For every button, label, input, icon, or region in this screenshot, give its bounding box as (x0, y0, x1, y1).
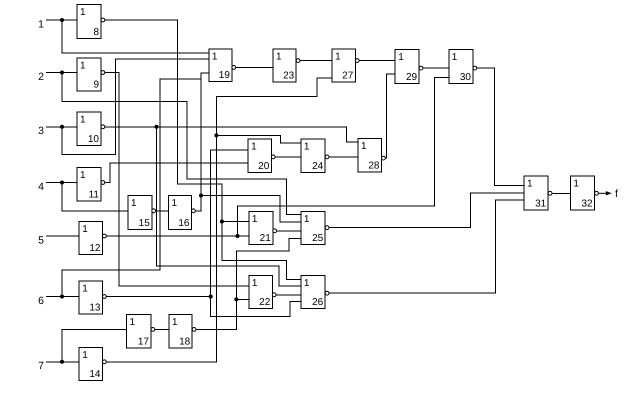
gate 26 (IEC "1" box with inverting output) (301, 275, 329, 308)
svg-text:31: 31 (535, 199, 547, 210)
gate 8 (IEC "1" box with inverting output) (77, 5, 105, 39)
gate 29 (IEC "1" box with inverting output) (395, 50, 423, 84)
wire gate 12 output to gate 21 in2 (106, 235, 249, 237)
svg-text:24: 24 (312, 161, 324, 172)
wire input 4 to gate 15 in (62, 183, 128, 211)
junction gate 12 output (236, 234, 240, 238)
svg-text:1: 1 (276, 51, 282, 62)
gate 20 (IEC "1" box with inverting output) (248, 139, 275, 173)
svg-text:29: 29 (406, 72, 418, 83)
gate 28 (IEC "1" box with inverting output) (358, 139, 385, 173)
input 6 label and lead (38, 295, 79, 307)
svg-text:1: 1 (172, 198, 178, 209)
wire branch gate 16 to gate 25 in2 (201, 196, 301, 223)
wire gate 10 output to gate 28 in1 (105, 127, 358, 142)
gate 18 (IEC "1" box with inverting output) (169, 314, 196, 347)
wire gate 11 output to gate 20 in2 (105, 163, 248, 183)
svg-text:11: 11 (89, 189, 100, 200)
wire gate 21 output to gate 25 in3 (277, 230, 301, 232)
svg-text:23: 23 (283, 71, 295, 82)
svg-text:1: 1 (80, 61, 86, 72)
junction input 1 (60, 18, 64, 22)
junction gate 16 output (199, 194, 203, 198)
svg-text:25: 25 (312, 233, 324, 244)
svg-text:1: 1 (252, 278, 258, 289)
svg-text:1: 1 (251, 141, 257, 152)
wire gate 17 output to gate 18 (155, 328, 169, 330)
svg-text:26: 26 (312, 297, 324, 308)
gate 12 (IEC "1" box with inverting output) (79, 221, 106, 254)
svg-text:1: 1 (252, 214, 258, 225)
svg-text:1: 1 (131, 198, 137, 209)
svg-text:20: 20 (258, 161, 270, 172)
svg-text:14: 14 (89, 369, 101, 380)
svg-text:1: 1 (38, 18, 44, 30)
gate 32 (IEC "1" box with inverting output) (570, 176, 598, 210)
svg-text:12: 12 (89, 243, 101, 254)
junction gate 10 output (155, 125, 159, 129)
input 7 label and lead (38, 360, 79, 372)
svg-text:5: 5 (38, 234, 44, 246)
svg-text:3: 3 (38, 125, 44, 137)
wire gate 8 output to gates 21/26 (101, 20, 301, 279)
svg-text:1: 1 (80, 115, 86, 126)
wire input 2 to gate 25 in1 (62, 73, 301, 215)
wire branch gate 10 to gate 26 in2 (157, 127, 301, 286)
wire gate 25 output to gate 31 in2 (329, 193, 524, 228)
svg-text:1: 1 (130, 317, 136, 328)
gate 17 (IEC "1" box with inverting output) (127, 314, 155, 347)
wire gate 18 output riser (196, 238, 301, 329)
gate 16 (IEC "1" box with inverting output) (169, 196, 196, 230)
wire gate 20 output to gate 24 (275, 156, 301, 158)
wire gate 23 output to gate 27 (300, 60, 332, 62)
gate 30 (IEC "1" box with inverting output) (449, 50, 477, 84)
gate 23 (IEC "1" box with inverting output) (273, 49, 300, 82)
svg-text:1: 1 (573, 178, 579, 189)
wire gate 29 output to gate 30 (423, 67, 449, 69)
gate 25 (IEC "1" box with inverting output) (301, 211, 329, 244)
svg-text:1: 1 (212, 52, 218, 63)
svg-text:13: 13 (89, 303, 101, 314)
svg-text:27: 27 (342, 71, 354, 82)
wire input 1 to gate 19 in1 (62, 20, 209, 53)
svg-text:f: f (615, 188, 618, 200)
gate 15 (IEC "1" box with inverting output) (128, 196, 156, 230)
wire gate 28 output to gate 29 in2 (385, 74, 395, 158)
svg-text:1: 1 (335, 51, 341, 62)
wire input 6 to gate 19 in3 riser (62, 79, 201, 296)
wire gate 13 output to junction (106, 296, 210, 298)
svg-text:1: 1 (82, 350, 88, 361)
junction gate 14 riser (214, 133, 218, 137)
wire gate 15 output to gate 16 (156, 210, 169, 212)
wire branch gate 12 to gate 30 in2 (238, 78, 449, 236)
svg-text:1: 1 (172, 317, 178, 328)
input 1 label and lead (38, 18, 77, 30)
svg-text:4: 4 (38, 181, 44, 193)
svg-text:1: 1 (304, 141, 310, 152)
wire gate 19 output to gate 23 (236, 66, 273, 68)
svg-text:28: 28 (368, 161, 380, 172)
output arrow to f (598, 188, 618, 200)
gate 11 (IEC "1" box with inverting output) (77, 168, 105, 201)
junction input 6 (60, 295, 64, 299)
gate 27 (IEC "1" box with inverting output) (332, 49, 359, 82)
wire gate 16 output riser to gate 19 in3 (195, 73, 209, 211)
junction input 7 (60, 360, 64, 364)
svg-text:30: 30 (460, 72, 472, 83)
svg-text:22: 22 (259, 297, 271, 308)
junction gate 13 output (209, 295, 213, 299)
svg-text:1: 1 (398, 52, 404, 63)
input 2 label and lead (38, 71, 77, 83)
junction input 2 (60, 71, 64, 75)
gate 14 (IEC "1" box with inverting output) (79, 348, 106, 381)
wire gate 27 output to gate 29 in1 (359, 60, 395, 62)
svg-text:16: 16 (178, 218, 190, 229)
junction gate 8 net (220, 220, 224, 224)
gate 22 (IEC "1" box with inverting output) (249, 275, 276, 308)
svg-text:6: 6 (38, 295, 44, 307)
wire input 7 to gate 17 in (62, 329, 127, 361)
gate 9 (IEC "1" box with inverting output) (77, 58, 105, 91)
svg-text:32: 32 (581, 199, 593, 210)
svg-text:21: 21 (260, 233, 272, 244)
svg-text:1: 1 (80, 170, 86, 181)
svg-text:1: 1 (361, 141, 367, 152)
junction input 3 (60, 125, 64, 129)
gate 13 (IEC "1" box with inverting output) (79, 281, 106, 314)
wire branch gate 13 to gate 20 in1 (211, 150, 248, 297)
gate 19 (IEC "1" box with inverting output) (209, 49, 236, 81)
wire gate 9 output to gate 22 in1 (105, 73, 249, 286)
svg-text:19: 19 (219, 70, 231, 81)
wire gate 30 output to gate 31 in1 (477, 68, 524, 185)
svg-text:1: 1 (82, 224, 88, 235)
svg-text:9: 9 (93, 80, 99, 91)
input 5 label and lead (38, 234, 79, 246)
wire gate 14 output riser (106, 78, 332, 362)
svg-text:7: 7 (38, 360, 44, 372)
svg-text:1: 1 (304, 214, 310, 225)
wire gate 31 output to gate 32 (552, 192, 570, 194)
svg-text:1: 1 (527, 178, 533, 189)
svg-text:18: 18 (179, 336, 191, 347)
svg-text:17: 17 (138, 336, 150, 347)
gate 24 (IEC "1" box with inverting output) (301, 139, 329, 173)
junction gate 18 riser (234, 297, 238, 301)
svg-text:1: 1 (452, 52, 458, 63)
wire branch to gate 21 in1 (222, 221, 249, 223)
gate 31 (IEC "1" box with inverting output) (524, 176, 552, 210)
svg-text:1: 1 (304, 278, 310, 289)
wire gate 24 output to gate 28 in2 (329, 156, 358, 158)
wire input 3 to gate 19 in2 (62, 59, 209, 154)
gate 10 (IEC "1" box with inverting output) (77, 112, 105, 146)
svg-text:10: 10 (88, 134, 100, 145)
svg-text:15: 15 (139, 218, 151, 229)
svg-text:8: 8 (93, 27, 99, 38)
junction input 4 (60, 181, 64, 185)
wire gate 26 output to gate 31 in3 (329, 200, 524, 293)
wire branch gate 18 to gate 22 in2 (236, 298, 249, 300)
svg-text:1: 1 (82, 284, 88, 295)
input 3 label and lead (38, 125, 77, 137)
svg-text:2: 2 (38, 71, 44, 83)
svg-text:1: 1 (80, 7, 86, 18)
wire gate 22 output to gate 26 in3 (276, 294, 301, 296)
wire branch gate 13 to gate 26 in4 (211, 297, 301, 317)
gate 21 (IEC "1" box with inverting output) (249, 211, 277, 244)
input 4 label and lead (38, 181, 77, 193)
wire branch gate 14 to gate 24 in2 (216, 135, 301, 142)
